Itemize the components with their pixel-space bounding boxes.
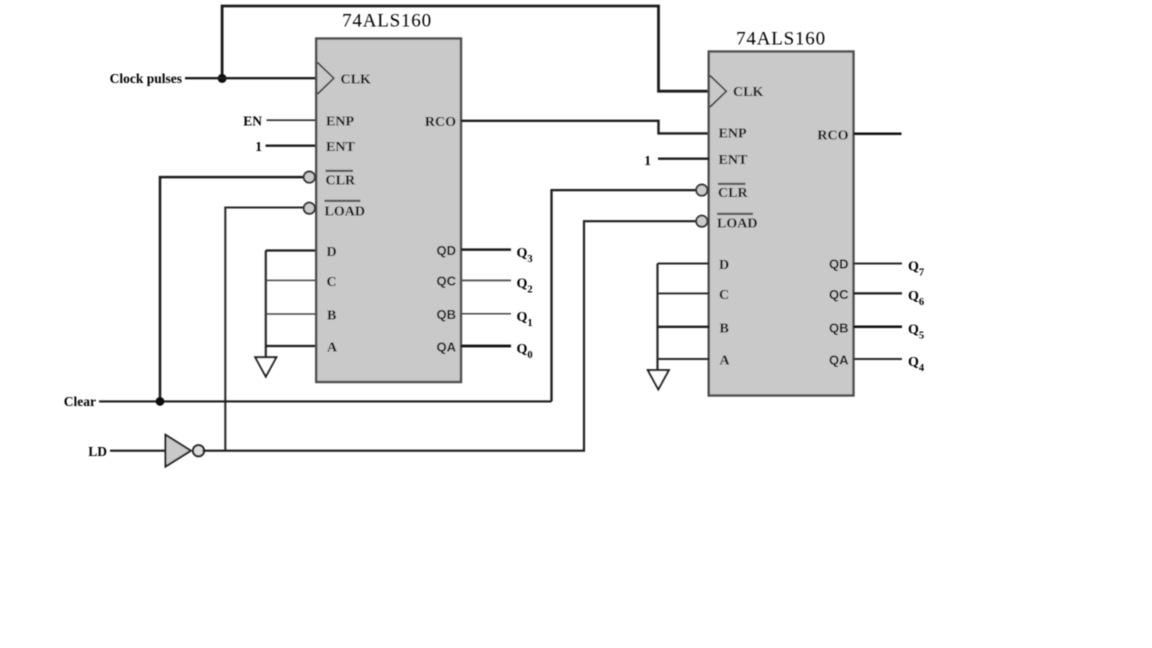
svg-text:Q5: Q5 [908, 323, 924, 342]
svg-text:QD: QD [829, 257, 849, 272]
U2 CLK edge-trigger chevron [710, 76, 726, 108]
svg-text:Clear: Clear [64, 394, 96, 409]
svg-text:RCO: RCO [425, 115, 456, 130]
svg-text:RCO: RCO [817, 129, 848, 144]
svg-text:QA: QA [829, 353, 849, 368]
wire: U2 QB output [854, 326, 903, 329]
svg-text:Q0: Q0 [517, 342, 533, 361]
svg-text:QD: QD [437, 243, 457, 258]
wire: U1 QD output [461, 248, 511, 251]
wire: U1 QB output [461, 313, 511, 315]
svg-text:Q7: Q7 [908, 260, 924, 279]
wire: Clear horizontal [99, 400, 552, 402]
wire: U1 QA output [461, 345, 511, 348]
svg-text:QB: QB [437, 307, 457, 322]
wire: U1 B input [266, 313, 317, 315]
wire: EN to U1 ENP [267, 119, 318, 121]
svg-text:1: 1 [255, 139, 262, 154]
svg-text:ENP: ENP [326, 115, 354, 130]
wire: LD to inverter input [110, 450, 165, 452]
junction dot at clock node [218, 74, 227, 83]
wire: Clock pulses to U1 CLK [185, 77, 317, 79]
wire: U2 A input [658, 358, 710, 360]
bus: U1 data inputs vertical [265, 251, 267, 358]
wire: U2 QD output [854, 263, 903, 265]
svg-text:CLR: CLR [718, 186, 748, 201]
svg-text:QB: QB [829, 321, 849, 336]
svg-text:QC: QC [829, 287, 849, 302]
bubble U1 LOAD [304, 203, 315, 214]
ground symbol U2 [648, 370, 669, 389]
svg-text:CLK: CLK [341, 73, 371, 88]
svg-text:D: D [327, 245, 337, 260]
bubble U1 CLR [304, 172, 315, 183]
inverter output bubble [193, 445, 204, 456]
IC U1 74ALS160 body [316, 39, 461, 383]
svg-text:A: A [327, 341, 338, 356]
junction dot on Clear line [156, 397, 165, 406]
svg-text:Q1: Q1 [517, 310, 533, 329]
svg-text:QC: QC [437, 274, 457, 289]
wire: U2 C input [658, 292, 710, 294]
IC U2 74ALS160 body [709, 52, 854, 396]
wire: clock bus from junction over top to U2 CLK [222, 6, 710, 91]
svg-text:74ALS160: 74ALS160 [736, 29, 826, 50]
svg-text:B: B [720, 322, 729, 337]
svg-text:ENP: ENP [719, 126, 747, 141]
svg-text:D: D [719, 258, 729, 273]
svg-text:Q3: Q3 [517, 246, 533, 265]
svg-text:C: C [719, 288, 729, 303]
U1 CLK edge-trigger chevron [318, 63, 334, 95]
svg-text:CLK: CLK [733, 85, 763, 100]
svg-text:CLR: CLR [326, 174, 356, 189]
wire: U1 C input [266, 279, 317, 281]
svg-text:LOAD: LOAD [325, 205, 365, 220]
wire: U2 D input [658, 263, 710, 265]
inverter (NOT gate) [166, 435, 191, 467]
wire: inverter output branch up to U1 LOAD [225, 208, 303, 451]
wire: Clear branch up to U2 CLR [552, 190, 697, 401]
wire: U2 QC output [854, 292, 903, 294]
svg-text:Q2: Q2 [517, 277, 533, 296]
bus: U2 data inputs vertical [656, 264, 658, 371]
ground symbol U1 [255, 357, 276, 376]
wire: U2 B input [658, 326, 710, 328]
svg-text:ENT: ENT [326, 140, 355, 155]
svg-text:LD: LD [88, 444, 107, 459]
wire: U1 RCO to U2 ENP [461, 121, 710, 134]
wire: U1 QC output [461, 279, 511, 281]
wire: U1 D input [266, 249, 317, 251]
wire: U1 A input [266, 345, 317, 347]
wire: inverter output to U2 LOAD [203, 221, 697, 451]
bubble U2 CLR [696, 185, 707, 196]
svg-text:A: A [720, 354, 731, 369]
svg-text:Clock pulses: Clock pulses [110, 71, 182, 86]
wire: 1 to U2 ENT [658, 157, 710, 159]
svg-text:EN: EN [243, 114, 262, 129]
wire: 1 to U1 ENT [266, 144, 318, 146]
svg-text:C: C [327, 275, 337, 290]
wire: U2 QA output [854, 358, 903, 360]
svg-text:LOAD: LOAD [717, 216, 757, 231]
svg-text:ENT: ENT [719, 153, 748, 168]
wire: Clear branch up to U1 CLR [160, 177, 304, 401]
svg-text:Q6: Q6 [908, 289, 924, 308]
svg-text:Q4: Q4 [908, 355, 925, 374]
svg-text:1: 1 [644, 153, 651, 168]
svg-text:B: B [327, 309, 336, 324]
svg-text:74ALS160: 74ALS160 [342, 11, 432, 32]
svg-text:QA: QA [437, 340, 457, 355]
wire: U2 RCO output [854, 133, 902, 136]
bubble U2 LOAD [696, 216, 707, 227]
